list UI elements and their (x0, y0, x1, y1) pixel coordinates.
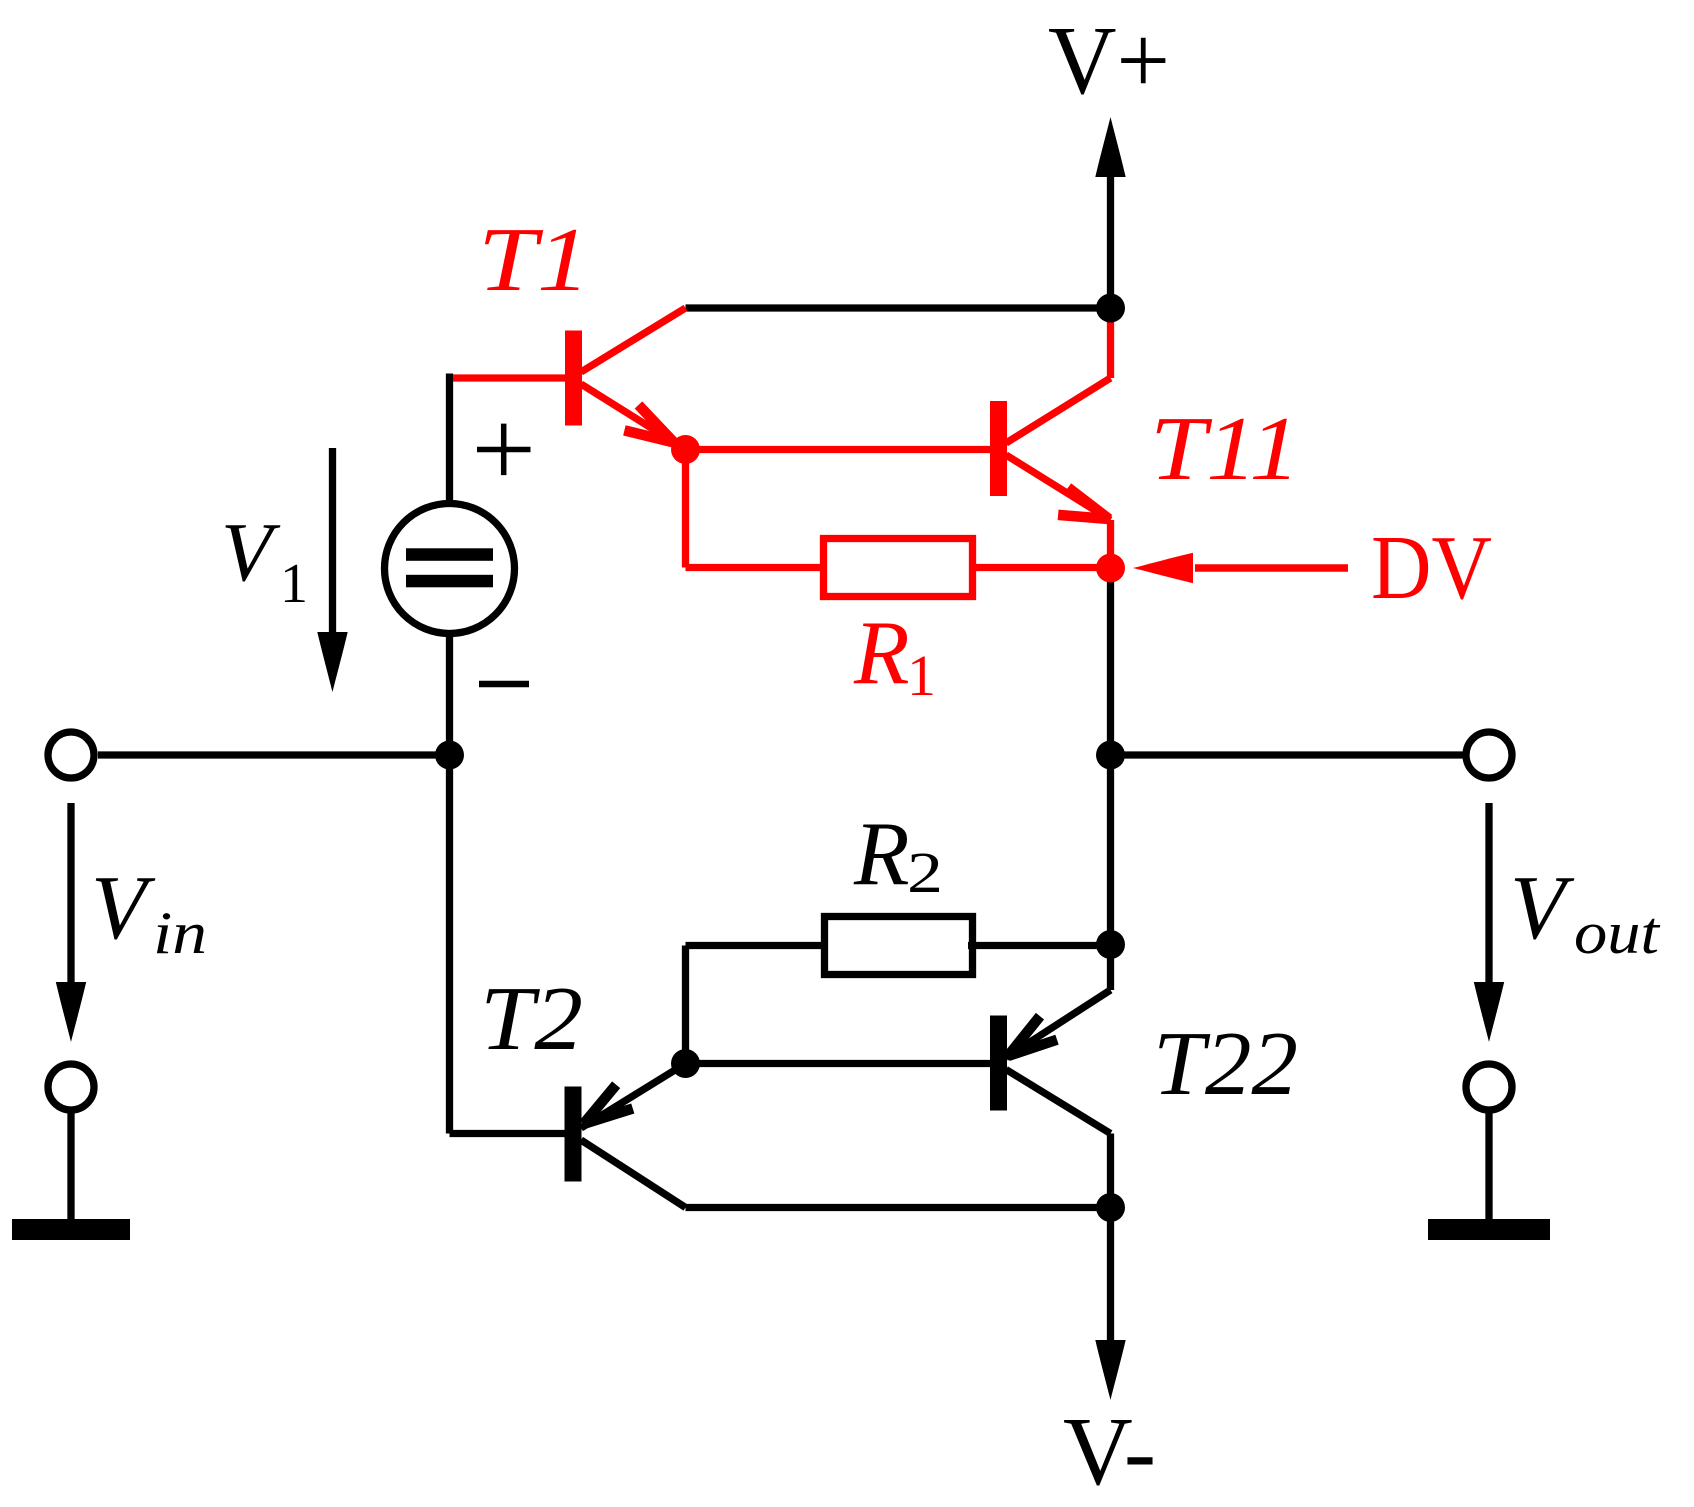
svg-text:V: V (91, 857, 156, 958)
svg-text:2: 2 (907, 840, 943, 905)
svg-text:1: 1 (907, 643, 936, 708)
svg-text:V: V (1510, 857, 1575, 958)
svg-text:V: V (221, 506, 281, 599)
svg-text:R: R (853, 602, 910, 703)
svg-text:T22: T22 (1153, 1013, 1298, 1114)
svg-text:V-: V- (1063, 1398, 1156, 1505)
svg-text:T2: T2 (480, 968, 583, 1069)
svg-text:R: R (853, 803, 910, 904)
svg-text:1: 1 (280, 553, 308, 615)
svg-text:out: out (1574, 900, 1660, 966)
svg-text:DV: DV (1371, 517, 1492, 618)
svg-text:V+: V+ (1048, 7, 1170, 114)
svg-text:T1: T1 (478, 209, 590, 310)
svg-text:in: in (153, 900, 207, 966)
svg-text:T11: T11 (1150, 398, 1300, 499)
